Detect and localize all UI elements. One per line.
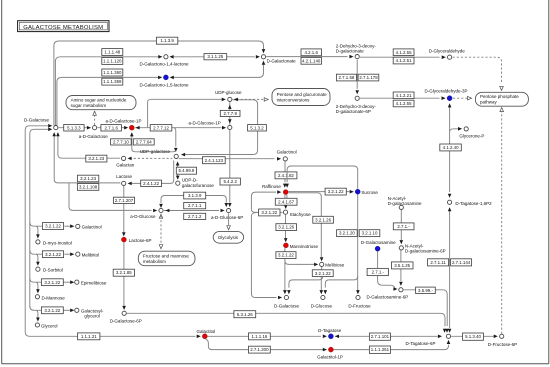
compound D-Galactono-1,5-lactone (blue) bbox=[163, 75, 168, 80]
arrow into Raffinose left bbox=[277, 190, 281, 194]
wire Stachyose 3.2.1.22 product to D-Galactose bottom bbox=[251, 216, 276, 298]
arrow into D-Tagatose left bbox=[323, 335, 327, 339]
enzyme box 2.7.7.10 bbox=[111, 139, 132, 145]
svg-text:3.2.1.22: 3.2.1.22 bbox=[45, 224, 61, 229]
arrow into D-Galactono-1,5-lactone right bbox=[170, 76, 174, 80]
svg-text:D-Galactose-6P: D-Galactose-6P bbox=[110, 318, 142, 323]
enzyme box 3.2.1.26 (raffinose) bbox=[313, 216, 334, 223]
svg-text:5.3.1.26: 5.3.1.26 bbox=[237, 312, 253, 317]
enzyme box 1.1.1.16 bbox=[249, 333, 271, 340]
svg-text:D-galactosamine-6P: D-galactosamine-6P bbox=[405, 249, 446, 254]
wire left bus 1: D-Galactose to Galactitol (1.1.1.21 line) bbox=[25, 126, 195, 336]
svg-text:interconversions: interconversions bbox=[277, 97, 311, 102]
svg-text:2.7.1.58: 2.7.1.58 bbox=[338, 75, 354, 80]
enzyme box 3.2.1.108 bbox=[77, 184, 98, 191]
svg-text:D-Tagatose-6P: D-Tagatose-6P bbox=[406, 341, 436, 346]
enzyme box 3.2.1.22 (raffinose-sucrose) bbox=[325, 188, 346, 195]
wire D-Galactono-1,5-lactone to D-Galactonate bbox=[172, 65, 264, 78]
enzyme box 1.1.1.251 bbox=[369, 346, 390, 353]
wire branch galactinol from bus bbox=[30, 222, 42, 226]
svg-text:glycerol: glycerol bbox=[84, 314, 100, 319]
arrow into D-Tagatose right bbox=[335, 335, 339, 339]
compound a-D-Galactose-1P (red) bbox=[129, 125, 134, 130]
arrow into 2-dehydro-3-deoxy-D-galactonate-6P bbox=[355, 90, 359, 94]
arrow up into D-Glyceraldehyde-3P bbox=[448, 103, 452, 107]
compound Galactinol (right) bbox=[283, 157, 287, 161]
svg-text:4.2.1.140: 4.2.1.140 bbox=[302, 58, 321, 63]
svg-text:a-D-Glucose-6P: a-D-Glucose-6P bbox=[211, 215, 243, 220]
enzyme box 2.7.1.178 bbox=[358, 74, 379, 81]
compound 2-Dehydro-3-deoxy-D-galactonate bbox=[355, 55, 359, 59]
arrow into a-D-Galactose bbox=[87, 126, 91, 130]
arrow into D-Glyceraldehyde bbox=[442, 55, 446, 59]
wire Melibiose into 3.2.1.22 bbox=[321, 267, 323, 270]
arrow down into D-Tagatose-1,6P2 bbox=[448, 194, 452, 198]
wire stub below 2.4.1.67 bbox=[285, 204, 287, 207]
wire branch melibiitol to product bbox=[64, 253, 70, 255]
svg-text:3.1.3.9: 3.1.3.9 bbox=[188, 193, 202, 198]
enzyme box 4.1.2.21 bbox=[393, 92, 414, 99]
wire branch galactinol to product bbox=[64, 225, 70, 227]
svg-text:3.2.1.22: 3.2.1.22 bbox=[315, 271, 331, 276]
compound D-Glyceraldehyde-3P (blue) bbox=[447, 96, 452, 101]
arrow open into pentose phosphate pathway top bbox=[500, 86, 504, 90]
arrow down into a-D-Glucose-6P via 3.1.3.9 bbox=[225, 203, 229, 207]
wire Stachyose 3.2.1.22 product up to Raffinose bbox=[251, 192, 276, 209]
arrow into Galactitol bbox=[197, 335, 201, 339]
svg-text:a-D-Glucose-1P: a-D-Glucose-1P bbox=[189, 120, 221, 125]
enzyme box 3.2.1.22 (manninotriose) bbox=[276, 252, 296, 259]
enzyme box 3.1.3.9 bbox=[184, 192, 206, 199]
wire branch galactosylglycerol from bus bbox=[30, 306, 41, 310]
svg-text:Galactan: Galactan bbox=[116, 162, 135, 167]
arrow into D-Tagatose-6P from 3.5.99 bbox=[445, 329, 449, 333]
wire Manninotriose to D-Galactose via 3.2.1.22 bbox=[284, 248, 286, 290]
arrow down into D-Tagatose-6P middle bbox=[448, 329, 452, 333]
arrow into Melibiitol bbox=[70, 252, 74, 256]
wire stub 3.2.1.22 to Stachyose circle bbox=[280, 211, 282, 213]
compound D-Tagatose-6P bbox=[446, 334, 450, 338]
enzyme box 2.4.1.123 bbox=[203, 157, 226, 164]
svg-text:2.4.1.22: 2.4.1.22 bbox=[143, 181, 159, 186]
wire Manninotriose branch to Melibiose bbox=[285, 261, 314, 265]
wire UDP-glucose to a-D-Glucose-1P via 2.7.7.9 bbox=[229, 102, 231, 125]
wire Raffinose to Sucrose via 3.2.1.22 part2 bbox=[321, 191, 350, 193]
wire N-acetyl-6P to D-galactosamine-6P via 3.5.1.25 bbox=[400, 250, 402, 281]
wire branch melibiitol down-stub bbox=[36, 254, 38, 262]
compound a-D-Glucose bbox=[159, 208, 163, 212]
arrow down into a-D-Glucose-1P bbox=[228, 119, 232, 123]
enzyme box 3.2.1.20 bbox=[337, 230, 358, 237]
wire Galactitol to D-Tagatose via 1.1.1.16 bbox=[208, 335, 322, 337]
svg-text:a-D-Glucose: a-D-Glucose bbox=[130, 214, 156, 219]
arrow into D-Mannose bbox=[36, 289, 40, 293]
compound Galactinol (left branch) bbox=[76, 224, 80, 228]
enzyme box 3.2.1.85 bbox=[113, 269, 134, 276]
enzyme box 3.2.1.22 (melibiitol) bbox=[42, 251, 63, 258]
svg-text:Lactose: Lactose bbox=[116, 174, 132, 179]
svg-text:sugar metabolism: sugar metabolism bbox=[71, 103, 107, 108]
enzyme box 3.2.1.23 (galactan) bbox=[86, 155, 107, 162]
svg-text:D-Fructose-6P: D-Fructose-6P bbox=[488, 342, 517, 347]
wire dashed UDP-galactose to Galactan bbox=[130, 157, 173, 159]
svg-text:D-Galactonate: D-Galactonate bbox=[267, 58, 297, 63]
wire 2-dehydro-3-deoxy-D-galactonate to D-Glyceraldehyde via 4.1.2.55/4.1.2.51 bbox=[360, 56, 440, 58]
svg-text:3.2.1.22: 3.2.1.22 bbox=[45, 252, 61, 257]
svg-text:3.2.1.23: 3.2.1.23 bbox=[80, 176, 96, 181]
svg-text:4.1.2.55: 4.1.2.55 bbox=[396, 50, 412, 55]
compound Sucrose (blue) bbox=[355, 189, 360, 194]
svg-text:Melibiose: Melibiose bbox=[325, 263, 345, 268]
svg-text:pathway: pathway bbox=[480, 100, 498, 105]
arrow into D-Galactose upper left bbox=[48, 124, 52, 128]
arrow into UDP-glucose right bbox=[234, 98, 238, 102]
enzyme box 2.7.1.- (galactosamine) bbox=[367, 268, 388, 275]
svg-text:Amino sugar and nucleotide: Amino sugar and nucleotide bbox=[71, 98, 127, 103]
enzyme box 3.2.1.22 (epimelibiose) bbox=[41, 279, 63, 286]
enzyme box 3.2.1.22 (melibiose) bbox=[312, 270, 333, 277]
wire Melibiose branch to D-Galactose bbox=[289, 277, 323, 288]
compound D-Galactono-1,4-lactone bbox=[164, 55, 168, 59]
arrow into D-Galactose lower left bbox=[48, 128, 52, 132]
svg-text:5.1.3.40: 5.1.3.40 bbox=[465, 334, 481, 339]
wire D-Galactonate to 2-dehydro-3-deoxy-D-galactonate via 4.2.1.6/4.2.1.140 bbox=[266, 56, 347, 58]
arrow into D-Galactono-1,4-lactone right bbox=[170, 55, 174, 59]
arrow up into D-Galactose from Lactose line bbox=[52, 132, 56, 136]
page border right bbox=[548, 0, 550, 364]
enzyme box 3.2.1.22 (galactosylglycerol) bbox=[41, 307, 63, 314]
svg-text:4.1.2.21: 4.1.2.21 bbox=[396, 93, 412, 98]
compound Melibiose bbox=[320, 262, 324, 266]
wire dashed D-Glyceraldehyde-3P to pentose phosphate pathway bbox=[453, 97, 468, 99]
wire branch to Glycerone-P bbox=[450, 129, 459, 132]
svg-text:2.7.1.200: 2.7.1.200 bbox=[250, 347, 269, 352]
enzyme box 2.7.1.101 bbox=[369, 333, 390, 340]
wire branch epimelibiose from bus bbox=[30, 278, 41, 282]
arrow into D-Galactosamine-6P from left bbox=[393, 287, 397, 291]
svg-text:4.1.2.55: 4.1.2.55 bbox=[396, 101, 412, 106]
svg-text:D-Galactono-1,5-lactone: D-Galactono-1,5-lactone bbox=[140, 82, 190, 87]
compound 2-Dehydro-3-deoxy-D-galactonate-6P bbox=[355, 96, 359, 100]
svg-text:1.1.3.9: 1.1.3.9 bbox=[160, 38, 174, 43]
svg-text:2.7.1.178: 2.7.1.178 bbox=[359, 75, 378, 80]
wire branch 2.7.7.12 up to UDP-glucose bbox=[148, 99, 222, 127]
wire Raffinose to Melibiose via 3.2.1.26 bbox=[289, 193, 322, 257]
compound Galactosyl-glycerol bbox=[75, 308, 79, 312]
compound D-Fructose-6P bbox=[500, 334, 504, 338]
arrow up into D-Tagatose-1,6P2 bbox=[448, 207, 452, 211]
wire UDP-glucose to UDP-galactose via 5.1.3.2 bbox=[185, 100, 258, 155]
arrow into Galactinol (left) bbox=[70, 224, 74, 228]
enzyme box 5.3.1.26 bbox=[234, 311, 256, 318]
wire Stachyose to Manninotriose via 3.2.1.26 bbox=[285, 215, 287, 238]
svg-text:Pentose phosphate: Pentose phosphate bbox=[480, 94, 519, 99]
svg-text:5.1.3.2: 5.1.3.2 bbox=[250, 125, 264, 130]
arrow into Stachyose bbox=[284, 205, 288, 209]
wire UDP-galactose to Lactose via 2.4.1.22 bbox=[129, 161, 174, 184]
enzyme box 3.2.1.22 (galactinol) bbox=[42, 223, 63, 230]
svg-text:Fructose and mannose: Fructose and mannose bbox=[143, 253, 190, 258]
wire Lactose branch to a-D-Glucose bbox=[69, 183, 152, 210]
wire path D-Galactose to D-Galactonate via 1.1.3.9 bbox=[54, 41, 264, 126]
svg-text:4.1.2.51: 4.1.2.51 bbox=[396, 58, 412, 63]
arrow up into UDP-glucose bbox=[228, 105, 232, 109]
arrow open up into amino sugar box bbox=[93, 111, 97, 115]
svg-text:3.2.1.85: 3.2.1.85 bbox=[116, 270, 132, 275]
svg-text:D-Mannose: D-Mannose bbox=[42, 295, 66, 300]
svg-text:D-Glucose: D-Glucose bbox=[311, 303, 333, 308]
svg-text:D-Galactosamine-6P: D-Galactosamine-6P bbox=[367, 295, 409, 300]
svg-text:a-D-Galactose-1P: a-D-Galactose-1P bbox=[106, 118, 142, 123]
arrow down into a-D-Glucose bbox=[159, 204, 163, 208]
enzyme box 5.1.3.40 bbox=[463, 333, 484, 340]
enzyme box 1.1.1.360 bbox=[102, 69, 123, 76]
enzyme box 2.7.7.64 bbox=[133, 139, 154, 145]
arrow into Lactose-6P bbox=[122, 232, 126, 236]
wire Galactinol to Raffinose via 2.4.1.82 bbox=[284, 161, 286, 182]
svg-text:Galactinol: Galactinol bbox=[82, 225, 102, 230]
arrow into D-Galactose bottom right arrow bbox=[287, 290, 291, 294]
svg-text:2.7.7.64: 2.7.7.64 bbox=[136, 140, 152, 145]
arrow open into pentose and glucuronate box bbox=[264, 98, 268, 102]
wire dashed D-Glyceraldehyde to pentose phosphate pathway bbox=[453, 57, 502, 84]
svg-text:D-Fructose: D-Fructose bbox=[348, 303, 371, 308]
compound D-Galactose (bottom) bbox=[284, 295, 288, 299]
wire D-Tagatose-1,6P2 to D-Tagatose-6P via 2.7.1.11/2.7.1.144 bbox=[449, 208, 451, 328]
wire Melibiose to D-Glucose via 3.2.1.22 bbox=[320, 277, 322, 290]
compound Epimelibiose bbox=[75, 280, 79, 284]
arrow into D-Sorbitol bbox=[36, 262, 40, 266]
svg-text:D-Glyceraldehyde-3P: D-Glyceraldehyde-3P bbox=[425, 89, 468, 94]
svg-text:D-Galactose: D-Galactose bbox=[24, 118, 50, 123]
svg-text:3.2.1.23: 3.2.1.23 bbox=[88, 156, 104, 161]
arrow into N-acetyl-D-galactosamine-6P bbox=[400, 240, 404, 244]
compound UDP-glucose bbox=[228, 97, 232, 101]
arrow into a-D-Glucose right bbox=[165, 209, 169, 213]
arrow into Galactinol bbox=[277, 157, 281, 161]
arrow into Raffinose from sucrose loop bbox=[285, 184, 289, 188]
enzyme box 1.1.1.21 bbox=[78, 333, 100, 340]
svg-text:Lactose-6P: Lactose-6P bbox=[129, 238, 152, 243]
svg-text:3.2.1.26: 3.2.1.26 bbox=[278, 225, 294, 230]
wire branch epimelibiose down-stub bbox=[36, 282, 38, 290]
wire branch galactosylglycerol to product bbox=[63, 309, 70, 311]
wire a-D-Galactose-1P to a-D-Glucose-1P via 2.7.7.12 bbox=[135, 127, 221, 129]
wire UDP-galactose to Galactinol via 2.4.1.123 bbox=[179, 158, 275, 160]
wire left bus 2: galactosidase products bbox=[30, 129, 34, 310]
arrow into Galactitol-1P bbox=[323, 348, 327, 352]
compound D-Glucose bbox=[321, 295, 325, 299]
pathway link box Pentose and glucuronate interconversions bbox=[272, 89, 330, 106]
compound a-D-Glucose-1P bbox=[228, 125, 232, 129]
svg-text:3.2.1.20: 3.2.1.20 bbox=[339, 231, 355, 236]
wire Raffinose to Stachyose via 2.4.1.67 (double) bbox=[285, 195, 287, 198]
svg-text:Galactitol-1P: Galactitol-1P bbox=[317, 354, 343, 359]
wire dashed a-D-Galactose to amino sugar metabolism bbox=[94, 115, 96, 126]
svg-text:2.7.1.2: 2.7.1.2 bbox=[188, 214, 202, 219]
svg-text:3.2.1.22: 3.2.1.22 bbox=[44, 280, 60, 285]
wire feedback into D-Galactose lower bbox=[34, 128, 48, 130]
arrow into D-Fructose-6P bbox=[494, 335, 498, 339]
compound Glycerone-P bbox=[464, 127, 468, 131]
wire dashed a-D-Glucose to fructose and mannose metabolism bbox=[160, 216, 162, 244]
svg-text:D-myo-Inositol: D-myo-Inositol bbox=[43, 240, 72, 245]
wire 6P to D-Glyceraldehyde-3P via 4.1.2.21/4.1.2.55 bbox=[360, 97, 440, 99]
arrow into D-myo-Inositol bbox=[36, 234, 40, 238]
arrow open into glycolysis bbox=[227, 226, 231, 230]
arrow open into pentose phosphate pathway left bbox=[468, 96, 472, 100]
arrow up into D-Galactose from Galactan line bbox=[56, 132, 60, 136]
arrow into D-Galactono-1,4-lactone left bbox=[158, 55, 162, 59]
svg-text:4.1.2.40: 4.1.2.40 bbox=[443, 145, 459, 150]
enzyme box 3.5.1.25 bbox=[392, 262, 414, 269]
wire D-Tagatose to D-Tagatose-6P via 2.7.1.101 bbox=[335, 335, 438, 337]
svg-text:3.2.1.108: 3.2.1.108 bbox=[79, 185, 98, 190]
enzyme box 2.7.1.2 bbox=[184, 213, 206, 219]
svg-text:Melibiitol: Melibiitol bbox=[82, 253, 100, 258]
arrow into a-D-Glucose-6P left bbox=[221, 209, 225, 213]
arrow into Manninotriose bbox=[284, 238, 288, 242]
wire a-D-Glucose-6P to glycolysis bbox=[228, 213, 230, 225]
compound D-Galactonate bbox=[261, 55, 265, 59]
svg-text:2.4.1.123: 2.4.1.123 bbox=[205, 158, 224, 163]
arrow into a-D-Glucose left bbox=[153, 209, 157, 213]
enzyme box 2.7.1.200 bbox=[249, 346, 271, 353]
enzyme box 5.4.2.2 bbox=[220, 178, 240, 185]
enzyme box 4.1.2.55 bbox=[393, 100, 414, 107]
pathway link box Fructose and mannose metabolism bbox=[138, 251, 195, 266]
svg-text:1.1.1.359: 1.1.1.359 bbox=[103, 79, 122, 84]
arrow up into UDP-galactose from below bbox=[176, 161, 180, 165]
enzyme box 2.7.1.11 bbox=[428, 259, 449, 266]
enzyme box 5.1.3.3 bbox=[64, 125, 84, 131]
svg-text:Epimelibiose: Epimelibiose bbox=[81, 281, 107, 286]
enzyme box 3.1.1.25 bbox=[204, 54, 227, 60]
arrow up into a-D-Galactose-1P bbox=[130, 132, 134, 136]
arrow into Melibiose left bbox=[314, 263, 318, 267]
compound Galactan bbox=[122, 156, 126, 160]
wire branch melibiitol from bus bbox=[30, 250, 42, 254]
compound UDP-galactose bbox=[174, 154, 178, 158]
svg-text:3.2.1.22: 3.2.1.22 bbox=[328, 189, 344, 194]
wire Galactitol to Galactitol-1P via 2.7.1.200 bbox=[206, 339, 327, 350]
svg-text:1.1.1.120: 1.1.1.120 bbox=[103, 59, 122, 64]
svg-text:1.1.1.48: 1.1.1.48 bbox=[104, 50, 120, 55]
wire Lactose to Lactose-6P via 2.7.1.207 bbox=[123, 186, 125, 233]
svg-text:3.5.1.25: 3.5.1.25 bbox=[394, 263, 410, 268]
svg-text:D-Glyceraldehyde: D-Glyceraldehyde bbox=[429, 49, 466, 54]
arrow up into D-Tagatose-6P bbox=[447, 340, 451, 344]
svg-text:3.2.1.22: 3.2.1.22 bbox=[44, 308, 60, 313]
compound UDP-D-galactofuranose bbox=[176, 181, 180, 185]
svg-text:D-Galactosamine: D-Galactosamine bbox=[361, 240, 396, 245]
arrow down into UDP-D-galactofuranose bbox=[176, 176, 180, 180]
svg-text:2.7.1.11: 2.7.1.11 bbox=[430, 260, 446, 265]
arrow into D-Galactose bottom left bbox=[278, 296, 282, 300]
arrow into D-Glyceraldehyde-3P bbox=[442, 96, 446, 100]
svg-text:3.1.1.25: 3.1.1.25 bbox=[207, 54, 223, 59]
arrow down into a-D-Glucose-6P from 5.4.2.2 bbox=[228, 203, 232, 207]
enzyme box 2.7.7.12 bbox=[150, 125, 172, 131]
svg-text:2.7.1.101: 2.7.1.101 bbox=[371, 334, 390, 339]
compound Manninotriose (red) bbox=[283, 243, 288, 248]
compound Galactitol-1P (red) bbox=[328, 347, 333, 352]
svg-text:1.1.1.16: 1.1.1.16 bbox=[251, 334, 267, 339]
wire dashed UDP-glucose to pentose and glucuronate interconversions bbox=[237, 98, 265, 100]
enzyme box 2.7.1.144 bbox=[451, 259, 472, 266]
svg-text:UDP-D-: UDP-D- bbox=[182, 178, 198, 183]
wire Galactitol-1P to D-Tagatose-6P via 1.1.1.251 bbox=[334, 345, 449, 350]
compound D-Mannose bbox=[35, 295, 39, 299]
svg-text:1.1.1.21: 1.1.1.21 bbox=[81, 334, 97, 339]
wire branch 2.7.7.12 down to UDP-galactose bbox=[174, 128, 176, 147]
svg-text:5.4.99.9: 5.4.99.9 bbox=[178, 168, 194, 173]
wire D-Galactosamine-6P to D-Tagatose-6P via 3.5.99.- bbox=[404, 290, 448, 326]
arrow into 2-dehydro-3-deoxy-D-galactonate bbox=[349, 55, 353, 59]
svg-text:3.2.1.26: 3.2.1.26 bbox=[315, 217, 331, 222]
page border left bbox=[1, 0, 3, 364]
arrow into a-D-Galactose-1P left bbox=[124, 126, 128, 130]
wire feedback into D-Galactose upper bbox=[29, 125, 48, 127]
enzyme box 3.5.99.- bbox=[416, 287, 436, 293]
arrow into D-Galactono-1,5-lactone left bbox=[158, 76, 162, 80]
svg-text:D-galactonate: D-galactonate bbox=[336, 48, 365, 53]
enzyme box 4.1.2.40 bbox=[440, 144, 462, 151]
wire Lactose-6P to D-Galactose-6P via 3.2.1.85 bbox=[123, 242, 125, 306]
svg-text:D-Galactono-1,4-lactone: D-Galactono-1,4-lactone bbox=[140, 62, 190, 67]
wire D-Tagatose-6P to D-Fructose-6P via 5.1.3.40 bbox=[451, 335, 493, 337]
enzyme box 1.1.3.9 bbox=[156, 37, 177, 44]
enzyme box 3.2.1.22 (stachyose) bbox=[259, 209, 280, 216]
svg-text:Pentose and glucuronate: Pentose and glucuronate bbox=[277, 92, 328, 97]
arrow into a-D-Glucose-1P left bbox=[222, 126, 226, 130]
svg-text:3.5.99.-: 3.5.99.- bbox=[418, 288, 433, 293]
svg-text:Glycerone-P: Glycerone-P bbox=[459, 133, 484, 138]
wire branch galactosylglycerol down-stub bbox=[36, 310, 38, 318]
enzyme box 1.1.1.359 bbox=[102, 78, 123, 85]
arrow open into fructose and mannose box bbox=[159, 245, 163, 249]
svg-text:D-galactonate-6P: D-galactonate-6P bbox=[336, 109, 371, 114]
wire a-D-Glucose to a-D-Glucose-6P via 2.7.1.1/2.7.1.2 bbox=[164, 210, 219, 212]
enzyme box 4.1.2.55 bbox=[393, 49, 414, 56]
enzyme box 3.2.1.26 (stachyose) bbox=[276, 224, 297, 231]
arrow into D-Galactose bottom from Manninotriose bbox=[283, 290, 287, 294]
pathway link box Pentose phosphate pathway bbox=[475, 92, 528, 106]
enzyme box 2.7.1.207 bbox=[113, 197, 134, 203]
enzyme box 4.2.1.6 bbox=[301, 49, 322, 56]
svg-text:a-D-Galactose: a-D-Galactose bbox=[79, 134, 109, 139]
wire D-Glyceraldehyde-3P to D-Tagatose-1,6P2 via 4.1.2.40 bbox=[449, 105, 451, 192]
wire UDP-galactose to UDP-D-galactofuranose via 5.4.99.9 bbox=[177, 162, 179, 176]
enzyme box 3.2.1.23 (lactose) bbox=[77, 175, 98, 182]
arrow into Melibiose from above bbox=[320, 257, 324, 261]
page border bottom bbox=[2, 363, 549, 365]
compound D-Galactose-6P bbox=[122, 311, 126, 315]
compound D-Tagatose-1,6P2 bbox=[448, 200, 452, 204]
title box GALACTOSE METABOLISM bbox=[18, 21, 109, 32]
svg-text:Raffinose: Raffinose bbox=[262, 184, 281, 189]
wire a-D-Galactose to a-D-Galactose-1P via 2.7.1.6 bbox=[97, 127, 127, 129]
compound D-Sorbitol bbox=[36, 267, 40, 271]
svg-text:2.4.1.82: 2.4.1.82 bbox=[278, 173, 294, 178]
svg-text:D-Galactose: D-Galactose bbox=[274, 303, 300, 308]
svg-text:1.1.1.251: 1.1.1.251 bbox=[371, 347, 390, 352]
arrow open up into a-D-Glucose from fructose/mannose bbox=[159, 214, 163, 218]
arrow into Glycerol bbox=[36, 318, 40, 322]
pathway link box Amino sugar and nucleotide sugar metabolism bbox=[66, 96, 136, 110]
svg-text:Manninotriose: Manninotriose bbox=[290, 244, 319, 249]
compound Galactitol (red) bbox=[202, 334, 207, 339]
